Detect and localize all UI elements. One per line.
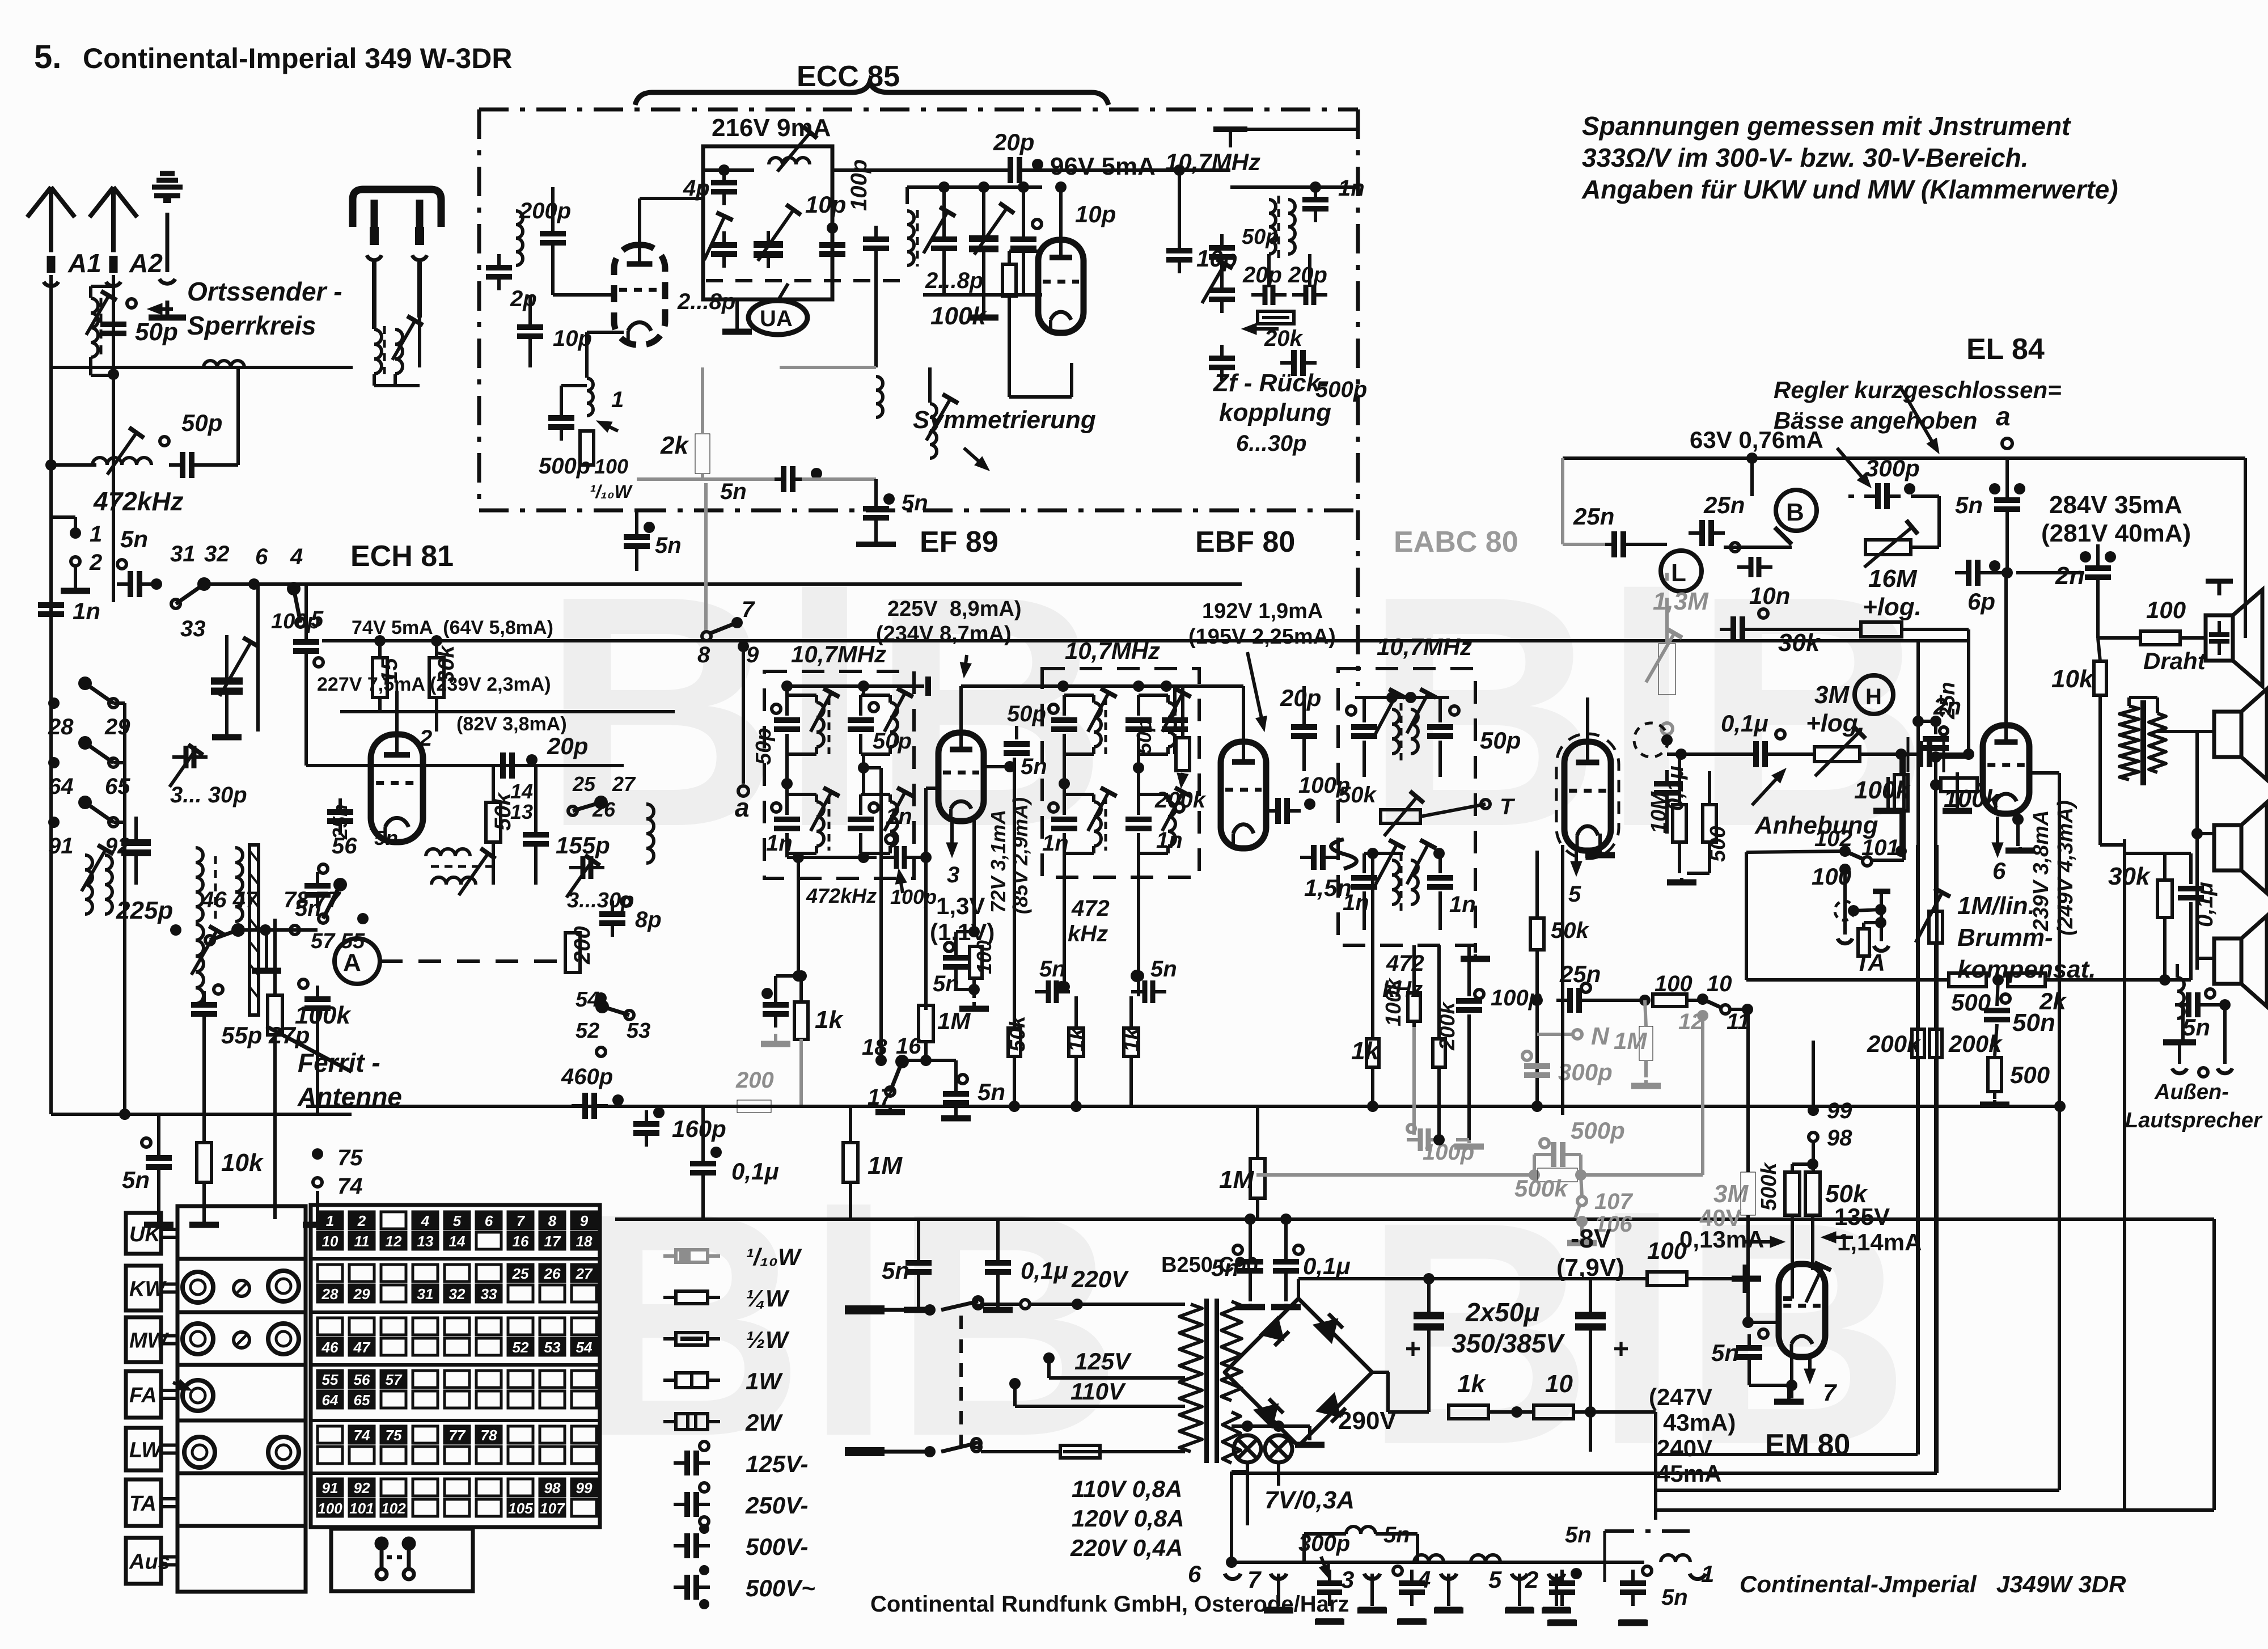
svg-text:100k: 100k [1382,978,1406,1026]
contact cell [413,1426,438,1443]
A circle [335,938,380,984]
resistor 1k s1 [1069,1028,1084,1056]
contact cell [572,1285,596,1302]
ech plate bus [306,764,624,767]
svg-text:33: 33 [180,616,206,641]
terminal a el84 [2002,438,2012,449]
tube ECC85 triode b [1038,240,1084,333]
H circle [1855,675,1893,714]
svg-text:53: 53 [544,1339,561,1356]
nested L wires bottom right [1916,845,1919,1454]
cathode choke + 100 ohm [587,378,593,416]
svg-text:0,1μ: 0,1μ [1303,1253,1351,1279]
pin5 feed vertical [1535,851,1539,920]
contact cell [318,1426,342,1443]
resonator if2 bot-right [1125,819,1152,828]
svg-text:200: 200 [735,1068,774,1093]
svg-text:220V: 220V [1071,1266,1129,1292]
contact cell [540,1447,565,1464]
svg-text:98: 98 [544,1479,561,1496]
contact cell [476,1265,501,1282]
svg-text:500k: 500k [1514,1175,1569,1202]
contact cell [476,1212,501,1229]
svg-text:¼W: ¼W [746,1285,790,1312]
capacitor 50p if2 extra [1162,720,1188,729]
arrow 225V [960,655,971,678]
box1 bottom rail [785,853,789,857]
resistor 2k gray [695,434,710,473]
contact cell [318,1285,342,1302]
contact cell [381,1265,406,1282]
bus A y1728 [1746,978,1949,982]
contact cell [540,1285,565,1302]
svg-text:333Ω/V im 300-V- bzw. 30-V-Ber: 333Ω/V im 300-V- bzw. 30-V-Bereich. [1582,143,2029,172]
contact cell [476,1479,501,1496]
svg-text:16M: 16M [1868,565,1918,593]
coil 472 out [646,804,654,863]
contact cell [413,1447,438,1464]
wire a1 anode up [638,198,641,245]
svg-text:Spannungen gemessen mit Jnstru: Spannungen gemessen mit Jnstrument [1582,111,2071,141]
tube ECC85 triode a [614,245,665,345]
capacitor 5n if1 [763,991,789,1028]
capacitor 2n out [2085,555,2111,591]
svg-text:100: 100 [2146,597,2186,623]
far right vertical from a-line [2244,458,2247,638]
svg-text:1k: 1k [1120,1027,1144,1052]
svg-text:(247V: (247V [1649,1384,1712,1410]
svg-text:(85V 2,9mA): (85V 2,9mA) [1009,797,1032,914]
resistor TA [1858,929,1869,956]
svg-text:6...30p: 6...30p [1236,431,1307,456]
svg-text:2: 2 [1525,1566,1538,1593]
coil symm [930,404,937,458]
contact cell [476,1391,501,1408]
svg-text:10: 10 [1545,1370,1573,1398]
contact cell [318,1212,342,1229]
svg-text:52: 52 [576,1019,599,1043]
resistor 30k ech [429,658,444,697]
svg-text:65: 65 [105,774,130,799]
contact cell [445,1338,469,1355]
capacitor 50n brumm [1984,1010,2010,1020]
switch 31-32 [171,579,209,608]
heater coil top [1346,1527,1376,1534]
wire 18 vertical [879,768,883,1056]
svg-text:50k: 50k [1338,783,1377,807]
svg-text:26: 26 [544,1265,561,1282]
svg-text:1n: 1n [73,598,100,624]
L circle [1661,551,1702,591]
svg-text:300p: 300p [1558,1059,1613,1085]
contact cell [540,1265,565,1282]
legend item &#185;/&#8321;&#8320;W [663,1250,720,1262]
capacitor 100p ebf [1264,798,1301,824]
FM box right [1356,109,1360,686]
svg-text:7V/0,3A: 7V/0,3A [1264,1486,1355,1514]
band selector box KW [126,1266,161,1310]
FM feeder coupling transformer [374,329,382,374]
elco plates a [1427,1279,1431,1310]
capacitor 0,1u out [2178,889,2204,898]
svg-text:2: 2 [357,1212,366,1229]
speaker top (tweeter) [2206,581,2262,686]
capacitor 25n af [1556,988,1593,1013]
wire antenna bus [196,366,353,369]
switch bank left [48,697,60,709]
svg-text:+: + [1613,1334,1629,1364]
svg-text:100p: 100p [847,159,871,211]
legend item 2W [663,1414,720,1430]
contact cell [445,1391,469,1408]
svg-text:2...8p: 2...8p [925,268,983,293]
dashed circle contact [1634,723,1668,757]
svg-text:1,3M: 1,3M [1653,587,1709,615]
wire A2 down [112,275,115,602]
screw circle [234,1280,249,1296]
svg-text:N: N [1591,1022,1610,1050]
main bottom bus [615,1217,2214,1221]
svg-text:1: 1 [611,387,624,412]
coil speaker [2177,978,2184,1018]
svg-text:7: 7 [742,597,755,622]
gray gnd [761,1034,790,1044]
capacitor 5n el84 [1994,487,2020,523]
svg-text:+log.: +log. [1806,709,1865,737]
svg-text:500p: 500p [1315,377,1367,402]
contact cell [413,1212,438,1229]
svg-text:63V 0,76mA: 63V 0,76mA [1690,426,1823,453]
pot 16M [1865,540,1911,555]
vertical 3472 [1967,629,1970,757]
if3 top resonators [1351,727,1377,736]
Zf-Rueck area [1209,234,1235,270]
capacitor 0,1u ps [1273,1248,1299,1284]
band selector box FA [126,1371,161,1418]
resonator if1 top-left [774,720,800,729]
contact cell [349,1479,374,1496]
screw circle [234,1332,249,1348]
contact cell [445,1232,469,1249]
contact cell [349,1447,374,1464]
EL84 anode wire [2004,573,2008,725]
svg-text:MW: MW [129,1329,170,1353]
svg-text:5.: 5. [34,39,61,75]
svg-text:5n: 5n [902,491,928,515]
heater coil 3 [1661,1555,1690,1562]
antenna A2 [90,187,137,286]
svg-text:5n: 5n [1150,957,1177,982]
svg-text:65: 65 [354,1392,370,1409]
resistor 1M mid [843,1143,858,1182]
contact cell [508,1265,533,1282]
capacitor 0,1u bottom [985,1249,1011,1286]
svg-text:ECH 81: ECH 81 [350,540,454,573]
switch bank right rail [123,703,126,822]
capacitor 8p [599,900,625,937]
svg-text:50k: 50k [1006,1015,1030,1052]
contact cell [476,1447,501,1464]
resistor 100k el84 [1941,778,1977,792]
input circuit trap [516,211,523,265]
svg-text:74: 74 [354,1427,370,1444]
band selector box MW [126,1317,161,1362]
capacitor 1n fmout [1302,186,1328,222]
capacitor 5n h1 [1399,1570,1425,1606]
capacitor 460p [572,1093,608,1119]
svg-text:a: a [735,793,750,822]
contact cell [540,1426,565,1443]
svg-text:Ferrit -: Ferrit - [298,1048,380,1077]
lamp 2 [1265,1435,1292,1462]
legend cap 500V~ [674,1575,710,1600]
svg-text:100p: 100p [271,610,320,633]
heater pin 4 [1441,1574,1457,1579]
contact cell [381,1391,406,1408]
contact cell [445,1212,469,1229]
svg-text:EBF 80: EBF 80 [1195,526,1295,559]
svg-text:200: 200 [570,926,595,965]
ground osc box [722,316,752,332]
if2 core1 [1105,697,1107,754]
band selector box LW [126,1428,161,1470]
det bracket [1331,839,1357,869]
svg-text:25: 25 [572,772,596,796]
contact cell [445,1265,469,1282]
contact cell [381,1447,406,1464]
svg-text:46: 46 [321,1339,338,1356]
contact cell [476,1318,501,1335]
svg-text:0,1μ: 0,1μ [731,1158,779,1185]
coil 472kHz [92,458,151,465]
AF wire [1588,999,1645,1002]
svg-text:10p: 10p [805,191,846,218]
svg-text:8p: 8p [635,907,662,932]
mains switch sub-box [331,1529,473,1591]
svg-text:220V 0,4A: 220V 0,4A [1070,1534,1183,1561]
EABC cathode resistors [1673,805,1686,842]
wire UA pointer [778,284,788,301]
svg-text:4: 4 [1417,1566,1431,1593]
resistor 200 ech [565,933,580,973]
resistor 10k left [197,1143,211,1182]
svg-text:A: A [343,949,361,976]
svg-text:10: 10 [322,1233,338,1250]
contact cell [476,1232,501,1249]
svg-text:10,7MHz: 10,7MHz [1165,149,1260,175]
svg-text:0,1μ: 0,1μ [1021,1257,1068,1284]
svg-text:50p: 50p [1132,719,1156,754]
band selector box UK [126,1213,161,1254]
contact cell [349,1265,374,1282]
resistor 500k gray [1538,1168,1577,1182]
svg-text:6: 6 [485,1212,493,1229]
svg-text:1,14mA: 1,14mA [1837,1229,1922,1255]
svg-text:30k: 30k [2108,862,2151,890]
svg-text:Continental-Jmperial J349W 3: Continental-Jmperial J349W 3DR [1740,1571,2126,1597]
contact cell [508,1212,533,1229]
contact cell [508,1479,533,1496]
contact cell [540,1391,565,1408]
band selector box Aus [126,1538,161,1584]
vertical 3747 [2123,839,2126,1510]
contact cell [572,1265,596,1282]
svg-text:5n: 5n [122,1166,150,1193]
legend item 1W [663,1373,720,1388]
svg-text:0,13mA: 0,13mA [1679,1226,1764,1253]
svg-text:(7,9V): (7,9V) [1556,1254,1624,1282]
svg-text:72V 3,1mA: 72V 3,1mA [987,810,1010,913]
svg-text:1n: 1n [766,831,793,856]
svg-text:1: 1 [326,1212,334,1229]
resonator if1 top-right [848,720,874,729]
resonator if2 top-right [1125,720,1152,729]
svg-text:5n: 5n [2182,1014,2210,1041]
earth antenna terminal [149,174,186,318]
EF89 cathode [946,821,958,857]
FM box top [479,108,1358,112]
contact cell [540,1499,565,1516]
svg-text:LW: LW [129,1439,163,1462]
svg-text:0,1μ: 0,1μ [2193,882,2218,927]
contact cell [508,1318,533,1335]
legend cap 500V- [674,1533,710,1558]
contact cell [572,1338,596,1355]
resistor 100k fm [1002,264,1016,296]
svg-text:14: 14 [449,1233,466,1250]
svg-text:+: + [1405,1334,1421,1364]
wire osc top [703,168,754,172]
svg-text:1: 1 [1701,1561,1714,1587]
svg-text:A1: A1 [67,248,101,278]
heater pin 2 [1548,1574,1564,1579]
contact cell [572,1499,596,1516]
resonator if1 bot-left [774,819,800,828]
capacitor 300p n [1524,1066,1550,1075]
contact cell [508,1499,533,1516]
svg-text:10k: 10k [221,1149,264,1177]
transformer core [1204,1299,1209,1463]
svg-text:H: H [1865,684,1882,709]
svg-text:31: 31 [170,542,196,566]
svg-text:17: 17 [544,1233,561,1250]
svg-text:3...30p: 3...30p [567,889,634,912]
coil antenna series [204,361,244,367]
resistor 1k if1 [794,994,808,1047]
contact cell [381,1338,406,1355]
coil MW [196,848,203,921]
capacitor 500p zf [1280,350,1317,376]
box2 secondary downs [1063,857,1066,987]
contact cell [381,1212,406,1229]
svg-text:0,1μ: 0,1μ [1721,710,1768,737]
svg-text:102: 102 [381,1500,406,1517]
knob circles KW [183,1272,213,1303]
svg-text:155p: 155p [556,832,610,859]
svg-text:(234V 8,7mA): (234V 8,7mA) [876,622,1012,646]
wire y1272 [1918,720,1936,723]
contact cell [508,1391,533,1408]
contact cell [349,1391,374,1408]
contact cell [508,1232,533,1249]
tube EABC80 [1564,742,1611,851]
svg-text:EABC 80: EABC 80 [1394,526,1518,559]
capacitor 5n s2 [1131,980,1166,1003]
svg-text:32: 32 [204,542,230,566]
svg-text:EL 84: EL 84 [1966,333,2045,366]
capacitor 100p mid [863,226,889,262]
contact cell [445,1499,469,1516]
EL84 cathode [1992,817,2003,857]
svg-text:10n: 10n [1749,582,1790,609]
svg-text:500: 500 [2010,1062,2050,1088]
screen feed vertical [1013,758,1016,1028]
capacitor 27p [304,986,331,1022]
svg-text:10: 10 [1707,971,1732,996]
svg-text:13: 13 [417,1233,434,1250]
contact cell [318,1391,342,1408]
capacitor 4p [711,169,737,205]
switch 107-106 gray [1577,1196,1586,1206]
svg-text:¹/₁₀W: ¹/₁₀W [746,1244,802,1270]
svg-text:20k: 20k [1264,326,1303,351]
svg-text:99: 99 [1827,1098,1852,1123]
anode rail to box2 [961,684,1191,688]
capacitor 100p gray [1407,1128,1442,1151]
contact cell [381,1479,406,1496]
arrow sperrkreis [147,303,173,315]
tube ECH81 [371,734,423,842]
capacitor 100p det [1456,1001,1482,1010]
svg-text:1n: 1n [886,804,912,829]
contact cell [349,1371,374,1388]
svg-text:107: 107 [1594,1189,1633,1214]
svg-text:2...8p: 2...8p [677,289,735,314]
coil mid [876,377,883,417]
speaker mid1 [2214,689,2267,1007]
svg-text:472kHz: 472kHz [806,884,877,907]
contact cell [413,1265,438,1282]
switch 25-27 [568,797,606,815]
contact cell [413,1318,438,1335]
svg-text:1k: 1k [1457,1370,1486,1398]
contact cell [476,1499,501,1516]
svg-text:14: 14 [510,780,533,803]
1M right mid [1250,1158,1265,1198]
contact cell [508,1285,533,1302]
wire to a [742,646,745,784]
svg-text:192V 1,9mA: 192V 1,9mA [1202,599,1323,623]
capacitor 160p [633,1110,659,1147]
svg-text:100: 100 [1655,971,1692,996]
contact cell [381,1232,406,1249]
EM80 feed [1812,1041,1815,1110]
svg-text:6: 6 [255,544,268,569]
svg-text:Lautsprecher: Lautsprecher [2125,1109,2263,1132]
capacitor 25n brumm [1923,739,1949,748]
svg-text:100: 100 [1647,1237,1687,1264]
svg-text:500p: 500p [539,454,590,479]
if1 core1 [828,697,831,754]
svg-text:107: 107 [540,1500,565,1517]
resistor 100 cathode [580,431,594,465]
contact cell [381,1499,406,1516]
svg-text:4p: 4p [683,176,710,201]
gnd tick if1 [925,676,931,696]
svg-text:5n: 5n [1955,492,1983,518]
switch 46-47 [205,925,243,945]
capacitor 5n s1 [1035,980,1070,1003]
